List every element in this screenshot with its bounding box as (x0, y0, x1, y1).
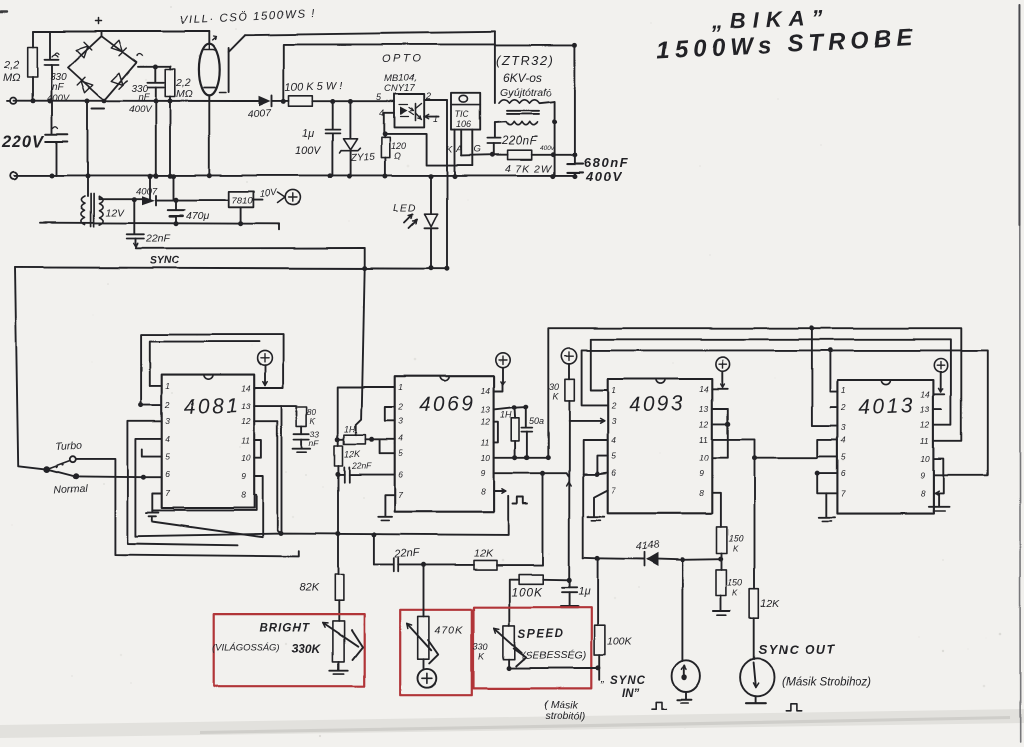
svg-text:6KV-os: 6KV-os (503, 71, 542, 85)
svg-text:5: 5 (165, 452, 170, 462)
svg-text:1: 1 (611, 385, 616, 395)
svg-text:14: 14 (481, 386, 491, 396)
svg-text:(VILÁGOSSÁG): (VILÁGOSSÁG) (212, 643, 280, 654)
svg-text:(SEBESSÉG): (SEBESSÉG) (522, 649, 586, 662)
svg-text:14: 14 (241, 383, 251, 393)
svg-text:8: 8 (241, 490, 246, 500)
svg-text:12: 12 (699, 419, 709, 429)
svg-text:2: 2 (425, 91, 431, 101)
svg-text:SYNC OUT: SYNC OUT (759, 643, 836, 657)
svg-text:2: 2 (164, 400, 170, 410)
svg-text:12V: 12V (105, 207, 125, 219)
svg-text:SYNC: SYNC (610, 675, 646, 687)
svg-text:LED: LED (393, 202, 416, 214)
svg-text:82K: 82K (299, 582, 319, 594)
svg-text:12K: 12K (761, 598, 781, 610)
svg-text:100K: 100K (607, 636, 633, 648)
svg-text:SPEED: SPEED (518, 629, 565, 641)
svg-text:330K: 330K (292, 642, 322, 656)
svg-text:22nF: 22nF (145, 233, 171, 245)
svg-text:BRIGHT: BRIGHT (260, 623, 310, 635)
svg-text:12K: 12K (474, 548, 494, 560)
svg-text:7: 7 (165, 489, 170, 499)
svg-text:TIC: TIC (455, 109, 470, 119)
svg-text:14: 14 (699, 384, 709, 394)
svg-text:13: 13 (920, 405, 930, 415)
svg-text:11: 11 (481, 437, 490, 447)
svg-text:400V: 400V (129, 104, 153, 115)
svg-text:13: 13 (241, 401, 251, 411)
svg-text:2: 2 (397, 402, 403, 412)
svg-text:120: 120 (391, 141, 406, 151)
svg-text:IN”: IN” (622, 688, 640, 700)
svg-text:nF: nF (138, 92, 150, 103)
svg-text:13: 13 (481, 404, 491, 414)
svg-text:4148: 4148 (635, 539, 659, 553)
svg-text:10V: 10V (259, 187, 279, 200)
svg-text:4: 4 (398, 433, 403, 443)
svg-text:220V: 220V (1, 133, 46, 151)
svg-text:strobitól): strobitól) (545, 711, 585, 723)
svg-text:K: K (733, 545, 739, 554)
svg-text:4069: 4069 (418, 392, 475, 417)
svg-text:11: 11 (699, 434, 708, 444)
svg-text:10: 10 (241, 453, 251, 463)
svg-text:7: 7 (398, 490, 403, 500)
svg-text:106: 106 (456, 119, 471, 129)
svg-text:680nF: 680nF (584, 155, 629, 170)
svg-text:3: 3 (398, 416, 403, 426)
svg-text:22nF: 22nF (351, 461, 372, 471)
svg-text:80: 80 (307, 408, 316, 417)
svg-text:100 K 5 W !: 100 K 5 W ! (285, 80, 343, 94)
svg-text:G: G (474, 144, 481, 155)
svg-text:100V: 100V (295, 145, 322, 157)
svg-text:1H: 1H (500, 410, 512, 420)
svg-text:11: 11 (920, 436, 929, 446)
svg-text:K: K (310, 417, 316, 426)
svg-text:5: 5 (611, 451, 616, 461)
svg-text:9: 9 (481, 468, 486, 478)
svg-text:1: 1 (841, 385, 846, 395)
svg-text:4: 4 (611, 435, 616, 445)
svg-text:100K: 100K (511, 585, 543, 599)
svg-text:Gyújtótrafó: Gyújtótrafó (500, 87, 552, 99)
svg-text:3: 3 (165, 416, 170, 426)
svg-text:1: 1 (398, 382, 403, 392)
svg-text:1μ: 1μ (578, 586, 590, 598)
svg-text:10: 10 (920, 454, 930, 464)
svg-text:5: 5 (398, 448, 403, 458)
svg-text:9: 9 (241, 472, 246, 482)
svg-text:1: 1 (165, 381, 170, 391)
svg-text:SYNC: SYNC (150, 254, 180, 267)
svg-text:7: 7 (841, 488, 846, 498)
svg-text:8: 8 (481, 486, 486, 496)
svg-text:Ω: Ω (394, 151, 401, 161)
svg-text:2: 2 (610, 400, 616, 410)
svg-text:22nF: 22nF (394, 547, 422, 560)
svg-text:4: 4 (379, 108, 384, 118)
svg-text:4081: 4081 (183, 394, 240, 419)
svg-text:1μ: 1μ (302, 128, 314, 140)
svg-text:4: 4 (841, 434, 846, 444)
svg-text:7810: 7810 (232, 196, 254, 207)
svg-text:9: 9 (920, 470, 925, 480)
svg-text:MΩ: MΩ (176, 88, 193, 100)
svg-text:K: K (553, 392, 560, 402)
svg-text:8: 8 (920, 488, 925, 498)
svg-text:ZY15: ZY15 (350, 152, 376, 164)
svg-text:Normal: Normal (54, 483, 89, 496)
svg-text:330: 330 (473, 642, 488, 652)
svg-text:(ZTR32): (ZTR32) (496, 53, 555, 68)
svg-text:14: 14 (920, 389, 930, 399)
svg-text:K: K (479, 652, 486, 662)
svg-text:K: K (446, 144, 453, 155)
svg-text:6: 6 (398, 470, 403, 480)
svg-text:K: K (733, 589, 739, 598)
svg-text:4 7K 2W: 4 7K 2W (505, 163, 552, 175)
svg-text:4013: 4013 (858, 394, 915, 419)
svg-text:470μ: 470μ (186, 210, 210, 222)
svg-text:3: 3 (841, 422, 846, 432)
svg-text:2: 2 (840, 402, 846, 412)
svg-text:4: 4 (165, 434, 170, 444)
svg-text:MΩ: MΩ (3, 72, 21, 84)
svg-text:2,2: 2,2 (3, 59, 19, 71)
svg-text:6: 6 (841, 468, 846, 478)
svg-text:150: 150 (729, 534, 744, 544)
svg-text:13: 13 (699, 404, 709, 414)
svg-text:nF: nF (309, 438, 320, 448)
svg-text:9: 9 (699, 468, 704, 478)
svg-text:10: 10 (699, 453, 709, 463)
svg-text:50a: 50a (529, 416, 544, 426)
svg-text:220nF: 220nF (501, 136, 538, 148)
svg-text:OPTO: OPTO (382, 53, 423, 65)
svg-text:400v: 400v (540, 145, 555, 152)
svg-text:(Másik Strobihoz): (Másik Strobihoz) (782, 677, 872, 689)
svg-text:12: 12 (920, 420, 930, 430)
svg-text:A: A (455, 144, 462, 155)
svg-text:12: 12 (481, 417, 491, 427)
svg-text:12K: 12K (344, 449, 361, 459)
svg-text:6: 6 (165, 469, 170, 479)
svg-text:470K: 470K (435, 625, 464, 637)
svg-text:4007: 4007 (247, 107, 272, 121)
svg-text:7: 7 (611, 485, 616, 495)
svg-text:400V: 400V (47, 93, 71, 104)
svg-text:30: 30 (549, 382, 559, 392)
svg-text:10: 10 (481, 453, 491, 463)
svg-text:150: 150 (728, 578, 743, 588)
svg-text:4007: 4007 (136, 186, 158, 197)
svg-text:CNY17: CNY17 (384, 83, 415, 94)
svg-text:3: 3 (611, 416, 616, 426)
svg-text:„: „ (600, 673, 605, 685)
svg-text:8: 8 (699, 488, 704, 498)
svg-text:Turbo: Turbo (55, 440, 82, 453)
svg-text:5: 5 (841, 451, 846, 461)
svg-text:11: 11 (241, 436, 250, 446)
svg-text:nF: nF (52, 82, 65, 93)
svg-text:400V: 400V (585, 169, 622, 184)
svg-text:12: 12 (241, 416, 251, 426)
svg-text:1H: 1H (344, 424, 356, 434)
svg-text:6: 6 (611, 468, 616, 478)
svg-text:4093: 4093 (628, 392, 685, 417)
svg-text:1: 1 (433, 114, 438, 124)
